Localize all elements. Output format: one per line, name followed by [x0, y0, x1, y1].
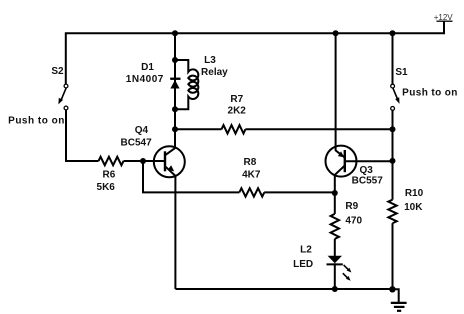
svg-text:470: 470 — [345, 215, 362, 226]
svg-text:LED: LED — [293, 259, 313, 270]
svg-text:Push to on: Push to on — [402, 88, 458, 99]
svg-text:L2: L2 — [300, 245, 312, 256]
svg-text:S2: S2 — [51, 66, 64, 77]
svg-text:R7: R7 — [230, 94, 243, 105]
svg-text:R8: R8 — [244, 157, 257, 168]
svg-text:2K2: 2K2 — [228, 106, 247, 117]
svg-text:L3: L3 — [204, 55, 216, 66]
svg-text:1N4007: 1N4007 — [126, 74, 164, 85]
svg-text:5K6: 5K6 — [97, 182, 116, 193]
svg-text:D1: D1 — [141, 62, 154, 73]
svg-text:R9: R9 — [345, 201, 358, 212]
svg-text:4K7: 4K7 — [242, 169, 261, 180]
svg-text:S1: S1 — [395, 67, 408, 78]
svg-text:Q4: Q4 — [135, 125, 149, 136]
svg-text:BC557: BC557 — [352, 176, 384, 187]
svg-text:Q3: Q3 — [360, 165, 374, 176]
svg-text:R6: R6 — [103, 170, 116, 181]
svg-text:+12V: +12V — [434, 13, 454, 22]
svg-text:10K: 10K — [404, 202, 423, 213]
svg-text:BC547: BC547 — [121, 138, 153, 149]
svg-text:Relay: Relay — [201, 67, 228, 78]
svg-text:R10: R10 — [405, 188, 424, 199]
svg-text:Push to on: Push to on — [8, 116, 65, 127]
